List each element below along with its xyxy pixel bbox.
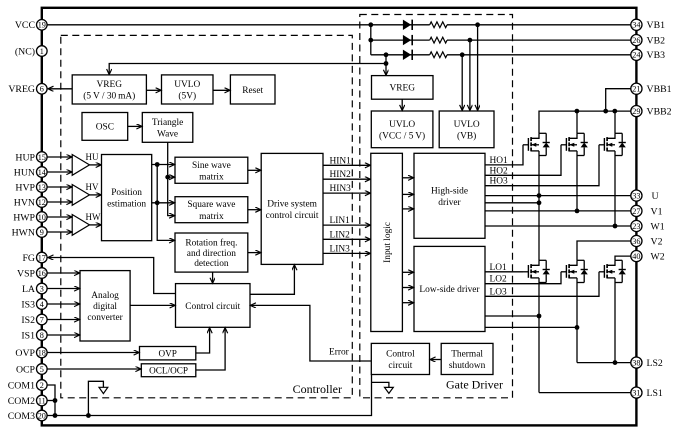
pin 29 VBB2 (631, 106, 672, 118)
wire V1 line to pin 27 (485, 210, 631, 212)
svg-text:UVLO: UVLO (389, 120, 415, 130)
svg-text:Low-side driver: Low-side driver (419, 285, 480, 295)
wire Q1 source to Q4 drain (U node) (538, 156, 540, 261)
svg-text:IS1: IS1 (21, 330, 35, 341)
block VREG (gate driver) (372, 76, 434, 100)
svg-text:LS2: LS2 (647, 358, 663, 369)
wire VCC to gate-driver VREG (385, 55, 387, 75)
wire Control circuit to Drive system (250, 265, 294, 295)
svg-text:HWN: HWN (12, 227, 35, 238)
wire HO1 (485, 145, 523, 165)
svg-text:Thermal: Thermal (451, 349, 483, 359)
block Thermal shutdown (441, 343, 493, 374)
wire Thermal shutdown to Control circuit (430, 359, 441, 361)
wire LIN2 (323, 238, 370, 240)
wire Rotation detection to Drive system (248, 252, 261, 254)
pin 26 VB2 (631, 35, 665, 47)
svg-text:U: U (652, 191, 659, 202)
svg-text:HIN1: HIN1 (330, 156, 352, 166)
wire low-side driver sense 2 (485, 326, 577, 328)
svg-text:Rotation freq.: Rotation freq. (185, 238, 237, 249)
svg-text:digital: digital (93, 302, 117, 312)
wire VREG to UVLO (146, 89, 161, 91)
svg-text:VBB2: VBB2 (647, 107, 672, 118)
pin 12 HVN (14, 197, 47, 209)
svg-text:VREG: VREG (389, 84, 415, 94)
svg-text:HWP: HWP (13, 212, 35, 223)
svg-text:HIN3: HIN3 (330, 184, 352, 194)
block High-side driver (414, 153, 485, 238)
wire Error from gate driver to controller (250, 305, 371, 361)
wire input logic to high-side driver y=194.4 (402, 193, 413, 195)
wire hall input y=217 (47, 216, 72, 218)
pin 16 VSP (17, 268, 47, 280)
block Input logic (371, 153, 403, 331)
svg-text:LO3: LO3 (490, 287, 507, 297)
block Analog digital converter (80, 271, 130, 341)
svg-text:Error: Error (329, 348, 350, 358)
wire analog input y=335 (47, 334, 79, 336)
svg-text:HUN: HUN (14, 167, 35, 178)
bootstrap resistor R1 (430, 22, 447, 28)
junction V1 / Q2 source (575, 209, 580, 214)
comparator HW (72, 215, 89, 236)
svg-text:IS3: IS3 (21, 299, 35, 310)
svg-text:Wave: Wave (157, 130, 178, 140)
pin 13 HVP (15, 182, 47, 194)
svg-text:HIN2: HIN2 (330, 170, 352, 180)
svg-text:(NC): (NC) (15, 46, 35, 57)
wire analog input y=273 (47, 272, 79, 274)
svg-text:IS2: IS2 (21, 315, 35, 326)
pin 15 HUP (15, 152, 47, 164)
wire OCP pin to OCL/OCP block (47, 368, 140, 370)
svg-text:40: 40 (632, 252, 640, 261)
wire Q2 source to V1 (576, 156, 578, 211)
svg-text:17: 17 (38, 253, 46, 262)
wire VCC to VB1 row (row 1) (47, 24, 429, 26)
pin 20 COM3 (8, 410, 47, 422)
svg-text:V2: V2 (651, 236, 663, 247)
pin 40 W2 (631, 251, 665, 263)
svg-text:LA: LA (22, 284, 35, 295)
svg-text:Square wave: Square wave (187, 200, 235, 210)
svg-text:W2: W2 (651, 252, 665, 263)
pin 24 VB3 (631, 49, 665, 61)
svg-text:VB3: VB3 (647, 50, 666, 61)
svg-text:HW: HW (86, 212, 101, 222)
svg-text:HO1: HO1 (490, 156, 509, 166)
svg-text:matrix: matrix (199, 212, 224, 222)
wire hall input y=232 (47, 231, 72, 233)
wire analog input y=288.5 (47, 288, 79, 290)
svg-text:Control circuit: Control circuit (185, 302, 240, 312)
junction COM2 (53, 398, 58, 403)
svg-text:12: 12 (38, 198, 46, 207)
svg-text:VCC: VCC (15, 20, 35, 31)
svg-text:Position: Position (111, 188, 142, 198)
svg-text:14: 14 (38, 168, 46, 177)
wire COM3 ground bus (47, 375, 371, 416)
svg-text:VREG: VREG (8, 84, 35, 95)
block Triangle Wave (142, 113, 193, 143)
pin 18 OVP (15, 347, 47, 359)
svg-text:8: 8 (40, 331, 44, 340)
wire low-side driver sense 1 (485, 315, 539, 317)
svg-text:detection: detection (194, 259, 229, 269)
wire input logic to high-side driver y=208.9 (402, 208, 413, 210)
svg-text:LO2: LO2 (490, 275, 507, 285)
svg-text:34: 34 (632, 21, 640, 30)
transistor Q5 low-side V phase (561, 260, 588, 282)
bootstrap diode D3 (403, 50, 412, 60)
transistor Q2 high-side V phase (561, 133, 588, 155)
svg-text:VREG: VREG (97, 80, 123, 90)
svg-text:OSC: OSC (96, 123, 114, 133)
block Drive system control circuit (261, 153, 323, 264)
svg-text:COM3: COM3 (8, 411, 35, 422)
wire Q6 source to LS2 line (614, 283, 616, 363)
pin 19 VCC (15, 20, 47, 32)
junction driver sense / Q1 source (537, 200, 542, 205)
wire OVP pin to OVP block (47, 352, 139, 354)
wire LO1 (485, 271, 523, 273)
wire LS1 line to pin 31 (539, 392, 631, 394)
block Reset (230, 75, 275, 104)
svg-text:33: 33 (632, 192, 640, 201)
pin 3 LA (22, 283, 47, 295)
junction VB3 sense (460, 52, 465, 57)
wire input logic to low-side driver y=287.5 (402, 287, 413, 289)
svg-text:UVLO: UVLO (454, 120, 480, 130)
wire VB3 sense to UVLO(VB) (461, 55, 463, 111)
wire input logic to high-side driver y=177.8 (402, 177, 413, 179)
svg-text:V1: V1 (651, 206, 663, 217)
svg-text:COM1: COM1 (8, 380, 35, 391)
svg-text:HV: HV (86, 182, 99, 192)
svg-text:9: 9 (40, 228, 44, 237)
block VREG (5V/30mA) (72, 75, 146, 104)
pin 23 W1 (631, 220, 665, 232)
block Sine wave matrix (175, 157, 248, 183)
wire COM1 tie (47, 385, 55, 416)
wire Q4 source to LS1 (538, 283, 540, 393)
svg-text:(5 V / 30 mA): (5 V / 30 mA) (83, 91, 135, 102)
wire OCL/OCP to Control circuit (196, 328, 225, 370)
svg-text:W1: W1 (651, 221, 665, 232)
pin 11 COM2 (8, 395, 47, 407)
svg-text:Input logic: Input logic (383, 222, 393, 263)
wire HO2 (485, 145, 561, 176)
block Low-side driver (414, 246, 485, 331)
pin 31 LS1 (631, 387, 663, 399)
pin 34 VB1 (631, 19, 665, 31)
wire VB1 sense to UVLO(VB) (477, 25, 479, 111)
junction row3/VREG feed (384, 52, 389, 57)
junction ground symbol tap (86, 413, 91, 418)
Controller dashed boundary (61, 35, 353, 397)
wire LIN1 (323, 224, 370, 226)
wire HIN2 (323, 178, 370, 180)
wire VB3 row (row 3) (371, 54, 430, 56)
wire Position to Rotation detection (157, 165, 174, 241)
junction VBB2 to M3 drain (612, 109, 617, 114)
svg-text:36: 36 (632, 237, 640, 246)
svg-text:11: 11 (38, 396, 46, 405)
wire comparator HU output (90, 164, 102, 166)
wire Square matrix to Drive system (248, 209, 261, 211)
wire LS2 line to pin 38 (577, 362, 631, 364)
junction triangle wave split (165, 175, 170, 180)
block OCL/OCP (141, 364, 196, 377)
wire Q5 source to LS2 (576, 283, 578, 363)
pin 6 VREG (8, 84, 47, 96)
pin 14 HUN (14, 167, 47, 179)
pin 17 FG (22, 252, 47, 264)
pin 9 HWN (12, 227, 48, 239)
wire hall input y=202 (47, 201, 72, 203)
bootstrap diode D1 (403, 20, 412, 30)
wire ADC to Control circuit (130, 304, 175, 306)
wire VCC vertical feed to rows (370, 25, 372, 55)
wire VCC to controller VREG (109, 64, 386, 75)
pin 27 V1 (631, 205, 663, 217)
pin 10 HWP (13, 212, 47, 224)
wire VBB2 bus to high-side drains (539, 111, 631, 133)
pin 1 (NC) (15, 46, 47, 58)
svg-text:10: 10 (38, 213, 46, 222)
wire comparator HW output (90, 224, 102, 226)
wire OSC to Triangle Wave (128, 125, 142, 127)
svg-text:LS1: LS1 (647, 388, 663, 399)
svg-text:7: 7 (40, 315, 44, 324)
svg-text:and direction: and direction (187, 249, 237, 259)
junction VBB2 to M2 drain (575, 109, 580, 114)
svg-text:VB2: VB2 (647, 36, 666, 47)
svg-text:38: 38 (632, 359, 640, 368)
wire HIN3 (323, 192, 370, 194)
block OSC (82, 113, 128, 141)
pin 38 LS2 (631, 357, 663, 369)
wire LIN3 (323, 252, 370, 254)
svg-text:FG: FG (22, 253, 35, 264)
wire Q3 source to W1 (614, 156, 616, 227)
pin 7 IS2 (21, 314, 47, 326)
svg-text:COM2: COM2 (8, 396, 35, 407)
svg-text:6: 6 (40, 85, 44, 94)
svg-text:Gate Driver: Gate Driver (446, 377, 503, 391)
junction position out B (155, 200, 160, 205)
svg-text:2: 2 (40, 381, 44, 390)
junction U line / Q1 source (537, 193, 542, 198)
wire hall input y=157 (47, 156, 72, 158)
svg-text:31: 31 (632, 389, 640, 398)
svg-text:15: 15 (38, 153, 46, 162)
junction VREG feed split (384, 61, 389, 66)
svg-text:4: 4 (40, 300, 44, 309)
svg-text:20: 20 (38, 411, 46, 420)
bootstrap resistor R2 (430, 37, 447, 43)
wire analog input y=319.5 (47, 319, 79, 321)
transistor Q3 high-side W phase (599, 133, 626, 155)
wire VREG to pin 6 (48, 88, 72, 90)
ground symbol (gate driver) (372, 382, 394, 393)
wire U line to pin 33 (485, 195, 631, 197)
svg-text:HUP: HUP (15, 152, 35, 163)
svg-text:18: 18 (38, 348, 46, 357)
svg-text:OCL/OCP: OCL/OCP (149, 366, 188, 376)
svg-text:HO2: HO2 (490, 166, 509, 176)
svg-text:Reset: Reset (242, 86, 263, 96)
svg-text:LIN2: LIN2 (330, 230, 351, 240)
pin 8 IS1 (21, 330, 47, 342)
block OVP (140, 347, 196, 360)
svg-text:HO3: HO3 (490, 177, 509, 187)
ground symbol (controller) (88, 381, 107, 415)
wire VBB1 to VBB2 bus (606, 89, 631, 111)
pin 2 COM1 (8, 380, 47, 392)
wire Rotation detection to Control circuit (212, 272, 214, 283)
svg-text:VB1: VB1 (647, 20, 666, 31)
block UVLO (VB) (439, 111, 494, 148)
pin 33 U (631, 190, 659, 202)
svg-text:29: 29 (632, 107, 640, 116)
junction position out A (155, 162, 160, 167)
svg-text:VBB1: VBB1 (647, 84, 672, 95)
svg-text:matrix: matrix (199, 172, 224, 182)
junction row1/VCC feed (368, 22, 373, 27)
junction driver sense / Q4 source (537, 314, 542, 319)
svg-text:Analog: Analog (91, 291, 119, 301)
svg-text:13: 13 (38, 183, 46, 192)
junction COM3 (53, 413, 58, 418)
wire Sine matrix to Drive system (248, 169, 261, 171)
wire HO3 (485, 145, 599, 186)
svg-text:Drive system: Drive system (267, 199, 317, 209)
svg-text:23: 23 (632, 222, 640, 231)
block Control circuit (gate driver) (371, 343, 429, 374)
wire high-side driver sense U (485, 202, 539, 204)
wire W2 pin to Q6 drain (615, 256, 631, 260)
wire input logic to low-side driver y=272.3 (402, 271, 413, 273)
svg-text:OCP: OCP (16, 364, 36, 375)
wire V2 pin to Q5 drain (577, 241, 631, 260)
pin 21 VBB1 (631, 83, 672, 95)
svg-text:control circuit: control circuit (266, 211, 319, 221)
comparator HV (72, 185, 89, 206)
bootstrap resistor R3 (430, 52, 447, 58)
block Position estimation (102, 155, 152, 241)
wire M3 drain (614, 111, 616, 133)
svg-text:LIN3: LIN3 (330, 244, 351, 254)
wire comparator HV output (90, 194, 102, 196)
junction row2/VCC feed (368, 38, 373, 43)
svg-text:(VCC / 5 V): (VCC / 5 V) (379, 130, 425, 141)
svg-text:shutdown: shutdown (449, 361, 486, 371)
svg-text:1: 1 (40, 47, 44, 56)
svg-text:driver: driver (438, 198, 461, 208)
wire Control circuit to FG pin (48, 258, 176, 294)
svg-text:24: 24 (632, 51, 640, 60)
junction driver sense / Q5 source (575, 325, 580, 330)
svg-text:estimation: estimation (107, 200, 146, 210)
svg-text:(5V): (5V) (178, 91, 196, 102)
wire UVLO to Reset (213, 89, 230, 91)
svg-text:Control: Control (386, 349, 415, 359)
svg-text:Sine wave: Sine wave (192, 161, 231, 171)
svg-text:Controller: Controller (293, 382, 342, 396)
block Rotation freq. and direction detection (175, 233, 248, 272)
svg-text:(VB): (VB) (457, 130, 476, 141)
svg-text:UVLO: UVLO (174, 80, 200, 90)
wire VB2 row (row 2) (371, 39, 430, 41)
svg-text:HVP: HVP (15, 182, 35, 193)
wire analog input y=304 (47, 303, 79, 305)
svg-text:5: 5 (40, 365, 44, 374)
wire Position to Sine wave matrix (152, 164, 175, 166)
svg-text:3: 3 (40, 284, 44, 293)
wire COM2 tie (47, 400, 55, 402)
junction VBB1/VBB2 (603, 109, 608, 114)
svg-text:OVP: OVP (15, 348, 35, 359)
block UVLO (5V) (162, 75, 214, 104)
Gate Driver dashed boundary (360, 15, 513, 398)
svg-text:26: 26 (632, 36, 640, 45)
bootstrap diode D2 (403, 35, 412, 45)
pin 5 OCP (16, 364, 47, 376)
pin 4 IS3 (21, 299, 47, 311)
junction VB2 sense (468, 38, 473, 43)
junction LS2 line / Q6 source (613, 360, 618, 365)
junction W1 / Q3 source (613, 224, 618, 229)
wire hall input y=187 (47, 186, 72, 188)
svg-text:Triangle: Triangle (152, 118, 183, 128)
block UVLO (VCC/5V) (371, 111, 433, 148)
svg-text:VSP: VSP (17, 268, 36, 279)
wire Position to Square wave matrix (152, 202, 175, 204)
svg-text:LIN1: LIN1 (330, 216, 351, 226)
wire Triangle Wave to matrices (168, 142, 175, 215)
svg-text:LO1: LO1 (490, 263, 507, 273)
pin 36 V2 (631, 235, 663, 247)
wire LO3 (485, 272, 599, 297)
junction VB1 sense (475, 22, 480, 27)
svg-text:circuit: circuit (388, 361, 412, 371)
wire M2 drain (576, 111, 578, 133)
svg-text:OVP: OVP (158, 349, 176, 359)
wire W1 line to pin 23 (485, 225, 631, 227)
svg-text:19: 19 (38, 21, 46, 30)
wire VREG to UVLO(VCC/5V) (401, 99, 403, 110)
svg-text:HU: HU (86, 152, 99, 162)
transistor Q6 low-side W phase (599, 260, 626, 282)
comparator HU (72, 155, 89, 176)
block Square wave matrix (175, 197, 248, 223)
svg-text:High-side: High-side (431, 186, 468, 196)
wire VB2 sense to UVLO(VB) (469, 40, 471, 110)
block Control circuit (controller) (176, 284, 251, 328)
transistor Q4 low-side U phase (523, 260, 550, 282)
svg-text:21: 21 (632, 85, 640, 94)
wire OVP to Control circuit (196, 328, 210, 353)
transistor Q1 high-side U phase (523, 133, 550, 155)
wire hall input y=172 (47, 171, 72, 173)
svg-text:27: 27 (632, 207, 640, 216)
wire LO2 (485, 272, 561, 284)
wire HIN1 (323, 164, 370, 166)
svg-text:converter: converter (87, 313, 123, 323)
svg-text:16: 16 (38, 269, 46, 278)
